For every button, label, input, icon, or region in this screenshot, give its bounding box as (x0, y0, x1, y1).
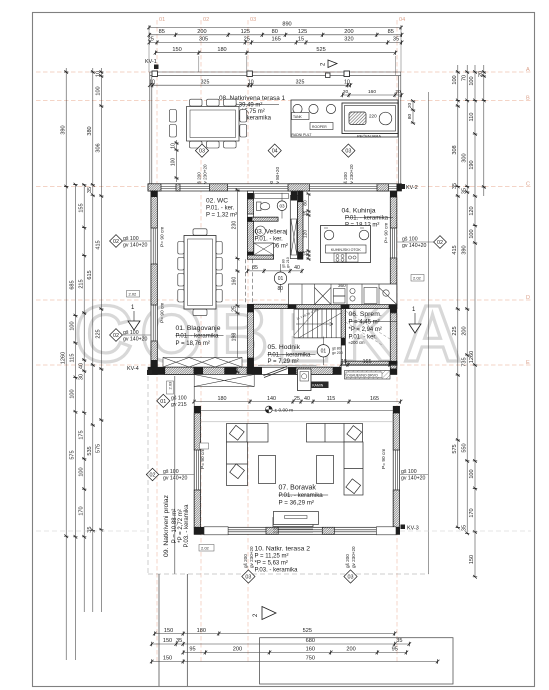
svg-text:30: 30 (78, 374, 84, 380)
door mark 04 terrace (268, 144, 281, 157)
svg-text:180: 180 (218, 396, 227, 402)
boravak north boundary line (201, 410, 394, 412)
svg-text:735: 735 (461, 357, 467, 366)
svg-text:P.03. - keramika: P.03. - keramika (184, 504, 190, 548)
svg-text:100: 100 (70, 389, 76, 398)
terrace post mid (247, 71, 253, 77)
door mark 03b terrace (342, 144, 355, 157)
svg-text:150: 150 (164, 628, 173, 634)
svg-text:B: B (526, 95, 530, 101)
terrace edge offset dim (171, 140, 179, 182)
svg-text:02: 02 (113, 239, 119, 245)
svg-text:03. Vešeraj: 03. Vešeraj (255, 229, 289, 236)
prolaz roof dashed line (147, 376, 149, 574)
kitchen island sink circles (324, 230, 334, 240)
svg-text:KUHINJSKI OTOK: KUHINJSKI OTOK (331, 248, 361, 252)
wall boravak south (194, 527, 399, 534)
wall boravak east (393, 406, 399, 534)
svg-text:95: 95 (392, 647, 398, 653)
svg-text:gš 100: gš 100 (123, 236, 139, 242)
svg-text:306: 306 (96, 143, 102, 152)
dim row 890 (147, 22, 403, 30)
svg-text:02: 02 (437, 240, 443, 246)
svg-text:100: 100 (78, 467, 84, 476)
right dim col 3 (469, 65, 477, 579)
wall interior wc-blagovanje upper (247, 191, 253, 259)
section arrow 2 bottom (253, 607, 276, 620)
kitchen island (321, 226, 371, 263)
svg-text:15: 15 (303, 211, 309, 217)
coffee table 1 (259, 456, 276, 484)
svg-text:04. Kuhinja: 04. Kuhinja (342, 208, 376, 215)
svg-text:890: 890 (282, 22, 291, 28)
outdoor kitchen burners (293, 104, 336, 113)
svg-text:E: E (526, 360, 530, 366)
svg-text:150: 150 (163, 656, 172, 662)
svg-text:P.03. - keramika: P.03. - keramika (255, 568, 299, 574)
wc closet row (255, 194, 289, 199)
svg-text:gv 140+20: gv 140+20 (163, 476, 187, 482)
section arrow 1 left (128, 305, 140, 330)
left dim col 4 (87, 68, 95, 612)
wall exterior west (151, 191, 157, 375)
svg-text:03: 03 (250, 17, 256, 23)
svg-text:P.01. - keramika: P.01. - keramika (176, 334, 220, 340)
svg-text:gv 215: gv 215 (171, 402, 187, 408)
svg-text:200: 200 (197, 29, 206, 35)
svg-text:10: 10 (248, 79, 254, 85)
svg-text:01: 01 (278, 276, 284, 282)
svg-text:100: 100 (171, 158, 177, 167)
boravak south sill left (204, 527, 228, 535)
svg-text:02: 02 (113, 333, 119, 339)
svg-text:10. Natkr. terasa 2: 10. Natkr. terasa 2 (255, 546, 311, 553)
svg-text:100: 100 (469, 76, 475, 85)
svg-text:OGRJEVNO DRVO: OGRJEVNO DRVO (347, 374, 378, 378)
section arrow 2 top (321, 60, 338, 68)
svg-text:P= 90 cm: P= 90 cm (200, 449, 206, 469)
sofa right L-shape (307, 424, 364, 496)
svg-text:± 0.00 m: ± 0.00 m (275, 408, 294, 414)
svg-text:05. Hodnik: 05. Hodnik (268, 344, 301, 351)
terrace 1 roof edge top (150, 72, 401, 76)
svg-text:gš 100: gš 100 (123, 330, 139, 336)
wall interior hodnik-blagovanje lower (247, 304, 253, 367)
label 2.03 left boravak (200, 443, 209, 449)
svg-text:01: 01 (159, 17, 165, 23)
svg-text:308: 308 (452, 145, 458, 154)
svg-text:01: 01 (160, 399, 166, 405)
tv sideboard (273, 512, 318, 525)
dim row terrace 10-325-10-325-10 (148, 79, 352, 87)
svg-text:40: 40 (304, 396, 310, 402)
svg-text:25: 25 (232, 306, 238, 312)
svg-text:P = 7,29 m²: P = 7,29 m² (268, 359, 299, 365)
svg-text:KAMIN: KAMIN (312, 384, 324, 388)
wall mid kuhinja-hodnik (254, 304, 397, 308)
sprem diagonal lines (345, 311, 390, 345)
svg-text:120: 120 (303, 230, 309, 238)
coffee table 2 (317, 456, 334, 484)
door mark 03 terrace2 left (242, 570, 255, 583)
svg-text:20: 20 (407, 103, 413, 109)
window diamond 02 left upper (110, 235, 123, 248)
dim 20-80 outdoor kitchen right (407, 99, 415, 125)
svg-text:P= 90 cm: P= 90 cm (160, 227, 166, 247)
svg-text:100: 100 (452, 75, 458, 84)
svg-text:230: 230 (232, 221, 238, 230)
svg-text:680: 680 (306, 638, 315, 644)
svg-text:gš 100: gš 100 (401, 469, 417, 475)
bottom dim 95-200-160-200-95 (181, 647, 408, 655)
svg-text:gš 100: gš 100 (163, 469, 179, 475)
svg-text:P.01. - keramika: P.01. - keramika (268, 353, 312, 359)
porch deck X (194, 375, 254, 387)
svg-text:180: 180 (197, 628, 206, 634)
svg-text:180: 180 (217, 47, 226, 53)
svg-text:165: 165 (272, 37, 281, 43)
section circle 01 veseraj (274, 264, 286, 292)
svg-text:07. Boravak: 07. Boravak (279, 485, 317, 492)
terrace 2 south dashed edge (148, 573, 429, 575)
left dim col 2 (70, 183, 78, 660)
svg-text:25: 25 (244, 37, 250, 43)
prolaz west edge line (174, 376, 176, 574)
kitchen counter south (289, 284, 397, 305)
svg-text:150: 150 (172, 47, 181, 53)
room label 09 prolaz rotated (163, 494, 190, 557)
svg-text:RADNI PULT: RADNI PULT (292, 133, 312, 137)
wall blagovanje south (148, 367, 254, 374)
svg-text:PEĆENJARA: PEĆENJARA (357, 134, 381, 139)
svg-text:535: 535 (87, 446, 93, 455)
svg-text:70: 70 (461, 75, 467, 81)
wall boravak west (194, 406, 200, 534)
label 2.02 left (127, 291, 140, 298)
svg-text:20: 20 (343, 89, 349, 95)
svg-text:ROOPER: ROOPER (312, 125, 327, 129)
svg-text:550: 550 (461, 443, 467, 452)
svg-text:01. Blagovanje: 01. Blagovanje (176, 325, 221, 332)
svg-text:35: 35 (393, 37, 399, 43)
svg-text:P= 90 cm: P= 90 cm (160, 303, 166, 323)
boravak south door sill (273, 518, 313, 527)
svg-text:KV-4: KV-4 (127, 366, 139, 372)
window mark boravak west (159, 474, 194, 476)
svg-text:KV-2: KV-2 (406, 185, 418, 191)
boravak ceiling line (201, 421, 394, 423)
wall veseraj-kuhinja (298, 191, 303, 259)
section circle 01 hodnik (317, 337, 329, 365)
svg-text:02: 02 (150, 472, 156, 478)
svg-text:P = 1,32 m²: P = 1,32 m² (206, 213, 237, 219)
grid line 02 vertical (200, 20, 202, 662)
svg-text:80: 80 (303, 200, 309, 206)
grid line C horizontal (36, 186, 531, 188)
grid line D horizontal (36, 299, 531, 301)
svg-text:160: 160 (368, 89, 376, 95)
terrace 1 dining table (187, 107, 240, 142)
window diamond 02 right (434, 236, 447, 249)
wc toilet (257, 202, 270, 211)
dim 15-165 sprem (339, 359, 397, 367)
svg-text:03: 03 (345, 149, 351, 155)
grid line 01 vertical (156, 20, 158, 662)
boravak south sill right (376, 527, 396, 535)
svg-text:25: 25 (148, 37, 154, 43)
svg-text:≈200 cm: ≈200 cm (349, 340, 366, 345)
svg-text:02. WC: 02. WC (206, 198, 228, 205)
section arrow 1 right (409, 307, 421, 333)
svg-text:gš 200: gš 200 (243, 554, 248, 568)
svg-text:415: 415 (452, 245, 458, 254)
prolaz link line (193, 387, 195, 407)
terrace post right (344, 71, 350, 77)
svg-text:02: 02 (203, 17, 209, 23)
right dim col 4 (478, 65, 486, 196)
svg-text:390: 390 (60, 125, 66, 134)
svg-text:80: 80 (407, 114, 413, 120)
svg-text:85: 85 (159, 29, 165, 35)
left dim col 3 (78, 183, 86, 612)
svg-text:gv 230+20: gv 230+20 (249, 546, 254, 568)
svg-text:C: C (526, 182, 530, 188)
svg-text:160: 160 (232, 277, 238, 286)
svg-text:225: 225 (96, 329, 102, 338)
wall veseraj south (247, 255, 273, 259)
svg-text:03: 03 (245, 574, 251, 580)
svg-text:100: 100 (96, 86, 102, 95)
svg-text:P.01. - ker.: P.01. - ker. (206, 206, 235, 212)
kitchen counter dividers and appliances (302, 284, 397, 305)
svg-text:80: 80 (272, 29, 278, 35)
dim interior 230-160-25-198-40 blagovanje (232, 188, 240, 374)
svg-text:215: 215 (78, 279, 84, 288)
walkway line 2 south (186, 574, 188, 686)
svg-text:35: 35 (87, 526, 93, 532)
svg-text:35: 35 (87, 187, 93, 193)
svg-text:165: 165 (370, 396, 379, 402)
svg-text:190: 190 (469, 160, 475, 169)
entrance door leaf (264, 367, 288, 378)
svg-text:110: 110 (469, 113, 475, 122)
outdoor kitchen TANK box (292, 113, 310, 120)
wall hodnik south (254, 367, 342, 374)
svg-text:35: 35 (396, 638, 402, 644)
svg-text:D: D (526, 295, 530, 301)
svg-text:80: 80 (278, 286, 284, 292)
svg-text:gv 140+20: gv 140+20 (123, 337, 147, 343)
svg-text:155: 155 (78, 203, 84, 212)
svg-text:gv 230+20: gv 230+20 (351, 546, 356, 568)
svg-text:200: 200 (233, 647, 242, 653)
svg-text:2.02: 2.02 (413, 276, 422, 281)
right dim col 1 (452, 65, 460, 529)
svg-text:gv 140+20: gv 140+20 (402, 243, 426, 249)
svg-text:15: 15 (341, 359, 347, 365)
dim 85-40 veseraj (246, 265, 304, 273)
svg-text:P = 18,76 m²: P = 18,76 m² (176, 341, 210, 347)
svg-text:360: 360 (338, 283, 346, 288)
svg-text:35: 35 (176, 638, 182, 644)
svg-text:170: 170 (469, 508, 475, 517)
dim 180-140-25-40-115-165 (192, 396, 402, 404)
svg-text:TANK: TANK (293, 115, 303, 119)
dim row 85-200-125-80-125-200-85 (148, 29, 404, 37)
kamin fireplace (298, 369, 312, 391)
svg-text:35: 35 (461, 188, 467, 194)
svg-text:03: 03 (348, 574, 354, 580)
svg-text:P = 11,25 m²: P = 11,25 m² (255, 554, 289, 560)
svg-text:gv 140+20: gv 140+20 (401, 476, 425, 482)
svg-text:390: 390 (461, 245, 467, 254)
window diamond 02 boravak west (146, 468, 158, 480)
svg-text:gv 200: gv 200 (332, 351, 343, 355)
svg-text:gv 80+20: gv 80+20 (275, 167, 280, 186)
stairs hodnik (294, 309, 341, 338)
left dim col 5 (96, 68, 104, 612)
section marker square (326, 73, 331, 78)
svg-text:*P = 2,94 m²: *P = 2,94 m² (349, 327, 382, 333)
svg-text:15: 15 (298, 37, 304, 43)
svg-text:04: 04 (272, 149, 278, 155)
svg-text:P.01. - keramika: P.01. - keramika (279, 492, 324, 499)
pecenjara outer box (342, 103, 398, 134)
window mark boravak east (400, 474, 428, 476)
grid line 03 vertical (247, 20, 249, 662)
svg-text:20: 20 (395, 89, 401, 95)
shaft veseraj (290, 196, 297, 259)
svg-text:1260: 1260 (469, 351, 475, 363)
terrace 1 edge right (399, 72, 401, 184)
svg-text:320: 320 (344, 37, 353, 43)
svg-text:2.03: 2.03 (168, 381, 173, 390)
svg-text:120: 120 (469, 206, 475, 215)
walkway line 1 south (158, 574, 160, 686)
veseraj machine box (254, 243, 274, 255)
svg-text:525: 525 (316, 47, 325, 53)
pecenjara circle (379, 112, 392, 125)
kitchen island burners (334, 253, 358, 262)
svg-text:gš 100: gš 100 (402, 236, 418, 242)
svg-text:gv 140+20: gv 140+20 (123, 243, 147, 249)
firewood box OGRJEVNO DRVO (345, 371, 391, 380)
svg-text:01: 01 (321, 349, 327, 355)
kitchen island label box (326, 245, 367, 253)
open boundary blagovanje-hodnik dashed (245, 259, 252, 304)
terrace post left (152, 71, 158, 77)
svg-text:35: 35 (452, 183, 458, 189)
svg-text:25: 25 (294, 396, 300, 402)
grid line 04 vertical (396, 20, 398, 662)
grid line B horizontal (36, 99, 531, 101)
svg-text:198: 198 (232, 333, 238, 342)
level mark 0.00 (265, 406, 293, 413)
svg-text:140: 140 (267, 396, 276, 402)
dim 80-15-120-15 kitchen wall (303, 192, 311, 261)
svg-text:165: 165 (363, 359, 372, 365)
svg-text:20: 20 (478, 71, 484, 77)
svg-text:150: 150 (163, 638, 172, 644)
canopy east edge line (428, 92, 430, 574)
svg-text:95: 95 (189, 647, 195, 653)
svg-text:575: 575 (452, 444, 458, 453)
svg-text:85: 85 (252, 265, 258, 271)
svg-text:06. Sprem.: 06. Sprem. (349, 311, 382, 318)
svg-text:525: 525 (303, 628, 312, 634)
svg-text:gš 100: gš 100 (171, 396, 187, 402)
svg-text:325: 325 (296, 79, 305, 85)
window diamond 02 left lower (110, 329, 123, 342)
label 2.03 box (167, 381, 174, 394)
svg-text:03: 03 (279, 203, 285, 208)
terrace 1 chairs (170, 99, 247, 148)
dim row 25-305-25-165-15-320-35 (148, 37, 404, 45)
svg-text:220: 220 (369, 114, 377, 119)
svg-text:09. Natkriveni prolaz: 09. Natkriveni prolaz (163, 494, 170, 557)
svg-text:03: 03 (199, 149, 205, 155)
svg-text:100: 100 (469, 469, 475, 478)
wall exterior east (390, 191, 397, 375)
dim row 150-180-525 (154, 47, 398, 55)
wall exterior north (148, 184, 402, 191)
svg-text:615: 615 (87, 270, 93, 279)
svg-text:gš 200: gš 200 (345, 554, 350, 568)
entrance step line (258, 364, 317, 366)
svg-text:15: 15 (303, 251, 309, 257)
door mark 01 entrance (157, 394, 170, 407)
svg-text:04: 04 (399, 17, 405, 23)
window mark 02 left upper (122, 240, 151, 242)
svg-text:100: 100 (469, 229, 475, 238)
outdoor kitchen counter (291, 100, 398, 137)
wall wc-veseraj (247, 217, 278, 221)
svg-text:160: 160 (306, 647, 315, 653)
label 2.02 right (411, 275, 424, 282)
svg-text:575: 575 (70, 450, 76, 459)
svg-text:1260: 1260 (60, 352, 66, 364)
door circle 03 wc (277, 193, 287, 219)
svg-text:A: A (526, 67, 530, 73)
svg-text:P = 36,29 m²: P = 36,29 m² (279, 500, 314, 507)
svg-text:KV-1: KV-1 (145, 59, 157, 65)
wall sprem south (341, 361, 397, 365)
svg-text:125: 125 (241, 29, 250, 35)
svg-text:170: 170 (78, 506, 84, 515)
grid line A horizontal (36, 71, 531, 73)
svg-text:415: 415 (96, 240, 102, 249)
svg-text:2.02: 2.02 (129, 292, 138, 297)
svg-text:35: 35 (461, 525, 467, 531)
svg-text:685: 685 (70, 280, 76, 289)
svg-text:750: 750 (306, 656, 315, 662)
blagovanje chairs (178, 229, 222, 316)
svg-text:305: 305 (199, 37, 208, 43)
left dim col 1 (60, 68, 68, 660)
pecenjara grill (349, 112, 366, 125)
sofa left L-shape (227, 424, 269, 486)
svg-text:10: 10 (171, 143, 177, 149)
svg-text:115: 115 (327, 396, 336, 402)
svg-text:125: 125 (298, 29, 307, 35)
svg-text:40: 40 (78, 363, 84, 369)
svg-text:325: 325 (201, 79, 210, 85)
grid line E horizontal (36, 364, 531, 366)
svg-text:200: 200 (461, 326, 467, 335)
outdoor kitchen ROOPER box (310, 123, 333, 130)
svg-text:P= 90 cm: P= 90 cm (381, 449, 387, 469)
svg-text:KV-3: KV-3 (407, 526, 419, 532)
